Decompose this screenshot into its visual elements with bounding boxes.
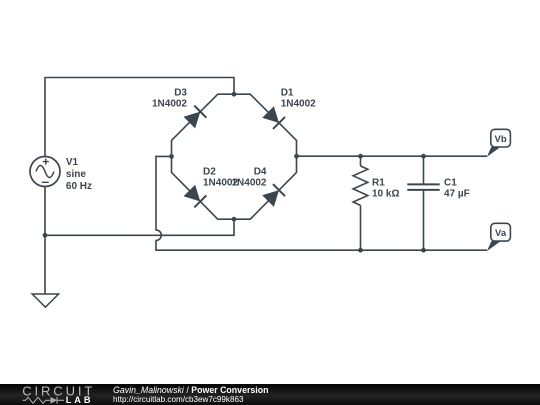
svg-text:Gavin_Malinowski / Power Conve: Gavin_Malinowski / Power Conversion xyxy=(113,385,268,395)
svg-text:D3: D3 xyxy=(174,88,187,99)
svg-text:D1: D1 xyxy=(281,88,294,99)
svg-text:47 µF: 47 µF xyxy=(444,189,470,200)
svg-text:LAB: LAB xyxy=(66,395,94,405)
svg-text:R1: R1 xyxy=(372,177,385,188)
svg-text:D2: D2 xyxy=(203,166,216,177)
svg-text:1N4002: 1N4002 xyxy=(152,99,187,110)
svg-text:http://circuitlab.com/cb3ew7c9: http://circuitlab.com/cb3ew7c99k863 xyxy=(113,395,244,404)
svg-text:sine: sine xyxy=(66,169,86,180)
svg-text:60 Hz: 60 Hz xyxy=(66,181,92,192)
svg-text:1N4002: 1N4002 xyxy=(281,99,316,110)
svg-text:1N4002: 1N4002 xyxy=(231,177,266,188)
svg-text:D4: D4 xyxy=(254,166,267,177)
svg-text:10 kΩ: 10 kΩ xyxy=(372,189,399,200)
svg-text:Vb: Vb xyxy=(495,134,507,145)
svg-text:Va: Va xyxy=(495,228,507,239)
svg-text:C1: C1 xyxy=(444,177,457,188)
svg-text:V1: V1 xyxy=(66,157,79,168)
